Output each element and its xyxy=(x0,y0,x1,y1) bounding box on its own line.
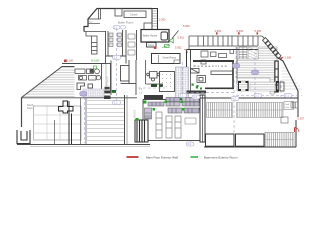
stair widget SE of diagonal xyxy=(291,102,298,108)
blue elevation tags mid xyxy=(139,89,143,94)
svg-text:5.301: 5.301 xyxy=(178,36,185,40)
dark striped block SW xyxy=(135,118,148,142)
kitchen counters row2 xyxy=(79,76,101,81)
legend xyxy=(127,155,239,159)
dark wall band south of rooms xyxy=(187,91,207,94)
connection room top thick wall xyxy=(193,60,234,62)
lower-left block perimeter xyxy=(17,98,150,147)
east wall of basement block xyxy=(200,95,205,142)
red door SE xyxy=(295,128,300,133)
down room xyxy=(147,43,157,48)
NE stair strip xyxy=(152,9,158,31)
lower-left interior walls xyxy=(55,98,87,144)
green pointer to boiler house xyxy=(165,31,179,48)
svg-text:Boiler House: Boiler House xyxy=(143,35,158,38)
svg-text:Cart: Cart xyxy=(285,106,290,109)
lower-left garage interior xyxy=(34,106,82,140)
svg-text:6.1: 6.1 xyxy=(285,94,289,98)
right wing top row of rooms xyxy=(189,36,262,50)
svg-text:N.100: N.100 xyxy=(91,59,99,63)
svg-text:1.1: 1.1 xyxy=(114,25,118,29)
office partition xyxy=(88,23,100,25)
mid room with table xyxy=(146,60,164,84)
svg-text:3.3: 3.3 xyxy=(187,142,191,146)
svg-text:2.306: 2.306 xyxy=(285,56,292,60)
svg-text:Down: Down xyxy=(148,44,155,47)
table in connection room xyxy=(211,71,233,75)
NE diagonal stair band xyxy=(262,36,281,59)
right wing big room walls xyxy=(187,50,259,68)
svg-text:3.1: 3.1 xyxy=(180,94,184,98)
basement striped bay xyxy=(87,95,127,145)
svg-text:4.303: 4.303 xyxy=(215,29,222,33)
svg-text:B A S E: B A S E xyxy=(134,109,137,118)
svg-text:Stor: Stor xyxy=(89,21,93,24)
svg-text:Connection: Connection xyxy=(194,64,227,68)
bottom-right parking area xyxy=(200,98,299,147)
scattered tables xyxy=(201,50,234,65)
basement shelving block xyxy=(135,95,205,142)
red annotations xyxy=(67,18,305,121)
elevator dark bar xyxy=(275,61,278,92)
svg-text:S T A I R: S T A I R xyxy=(107,76,110,86)
kitchen L island xyxy=(77,83,93,90)
green exit dots xyxy=(180,84,203,100)
perimeter xyxy=(204,146,296,148)
stripes inside SE triangle xyxy=(282,68,303,89)
stair cross structure xyxy=(59,101,74,144)
machinery units above parking xyxy=(237,81,284,92)
left shelf columns xyxy=(145,108,182,138)
west garage bracket xyxy=(17,130,30,144)
svg-text:Golf: Golf xyxy=(285,104,289,106)
blue grid lines xyxy=(85,28,303,143)
small box right xyxy=(281,117,288,123)
svg-text:Basement Exterior Room: Basement Exterior Room xyxy=(204,155,238,159)
shelving row 1 xyxy=(148,98,199,107)
blue grid bubbles xyxy=(80,25,292,146)
kitchen counters row1 xyxy=(75,69,99,74)
svg-text:2.300: 2.300 xyxy=(159,18,166,22)
left wing deck (striped triangle) xyxy=(22,67,75,98)
small room nw of connection xyxy=(191,50,206,93)
great room xyxy=(152,54,181,64)
golf cart shed xyxy=(284,102,294,110)
svg-text:Closet: Closet xyxy=(130,13,138,17)
ramp area right (stripes) xyxy=(237,47,277,94)
svg-text:5.100: 5.100 xyxy=(67,59,74,63)
svg-text:5.307: 5.307 xyxy=(298,117,305,121)
green labels xyxy=(91,59,99,63)
svg-text:4.2: 4.2 xyxy=(232,97,236,101)
mid-left dark thresholds xyxy=(151,84,163,87)
svg-text:Great Room: Great Room xyxy=(163,57,177,60)
connection room walls xyxy=(205,62,234,89)
toilet block xyxy=(106,30,137,64)
svg-text:5.300: 5.300 xyxy=(183,24,190,28)
corner room xyxy=(144,23,152,30)
mid-left rooms xyxy=(111,60,136,95)
svg-text:Main Floor Exterior Wall: Main Floor Exterior Wall xyxy=(146,155,178,159)
svg-text:5.302: 5.302 xyxy=(175,46,182,50)
stall band 2 with planters xyxy=(265,133,294,148)
svg-text:1.1: 1.1 xyxy=(114,56,118,60)
stall band 1 xyxy=(207,103,233,118)
svg-text:5.304: 5.304 xyxy=(237,29,244,33)
kitchen block top wall xyxy=(62,63,105,65)
green dots on shelving xyxy=(144,101,202,111)
svg-text:Boiler Room: Boiler Room xyxy=(118,21,134,25)
svg-text:Door: Door xyxy=(27,106,33,110)
svg-text:3.2: 3.2 xyxy=(193,95,197,99)
svg-text:2.2: 2.2 xyxy=(114,101,118,105)
hatched stair strip xyxy=(249,47,258,60)
dotted lounge room xyxy=(160,72,175,92)
left wing west wall xyxy=(21,98,23,128)
mid stairwell strip xyxy=(102,64,111,92)
top building outline xyxy=(84,9,152,32)
svg-text:5.1: 5.1 xyxy=(255,94,259,98)
ramp hatch below kitchen xyxy=(83,89,104,97)
top building interior xyxy=(84,9,146,55)
shelving row 2 xyxy=(168,108,199,113)
stair ladder strip xyxy=(239,47,247,60)
dark threshold xyxy=(104,96,111,100)
central ramp hatch xyxy=(176,67,189,99)
outer diagonal wall SE xyxy=(278,58,299,99)
boiler house xyxy=(141,30,169,43)
top wall xyxy=(200,97,298,99)
